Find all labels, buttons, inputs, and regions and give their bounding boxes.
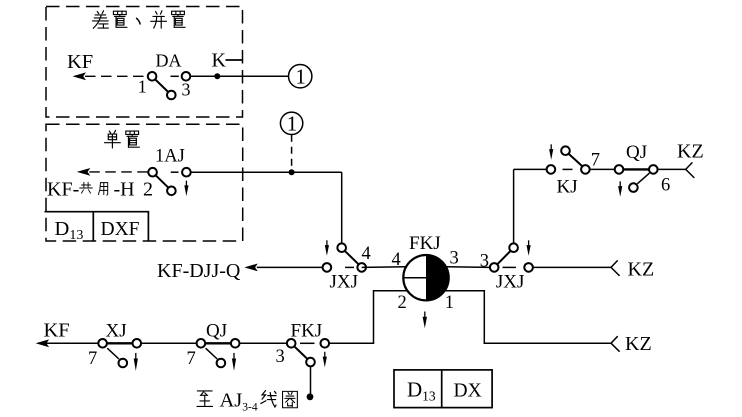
polarized relay FKJ — [403, 255, 448, 300]
wire: stem to AJ coil — [310, 366, 312, 395]
svg-text:1: 1 — [295, 64, 306, 88]
label K- — [212, 49, 243, 71]
FKJ pin labels 4/3/2/1 are near wires; pin 3 label — [450, 248, 459, 268]
svg-text:DXF: DXF — [101, 219, 140, 240]
svg-text:FKJ: FKJ — [409, 233, 441, 254]
pin 3 label — [182, 80, 191, 100]
pin 3 label (FKJ bottom) — [276, 347, 285, 367]
label DA — [156, 50, 182, 70]
svg-text:3: 3 — [276, 347, 285, 367]
pin 4 label (JXJ) — [362, 244, 371, 264]
label XJ — [106, 321, 127, 342]
svg-text:-H: -H — [114, 178, 135, 200]
contact FKJ bottom (open, pin 3) — [287, 339, 329, 366]
wire: dashed drop from node 1 — [291, 135, 293, 169]
svg-text:1AJ: 1AJ — [155, 147, 185, 167]
junction K (solder dot) — [214, 73, 220, 79]
svg-text:KZ: KZ — [625, 333, 652, 355]
wire: solid arrow bottom row — [36, 339, 99, 347]
svg-text:KF-DJJ-Q: KF-DJJ-Q — [157, 260, 241, 282]
arrow under FKJ — [423, 312, 427, 329]
dashed group box: 差置、并置 (top) — [46, 7, 243, 118]
svg-text:DA: DA — [156, 50, 182, 70]
wire: KJ to QJ — [590, 168, 615, 170]
wire: solid arrow row3 — [244, 264, 322, 272]
node 1 (circled, top) — [289, 64, 312, 88]
svg-text:6: 6 — [661, 176, 670, 196]
label QJ — [626, 142, 647, 163]
contact QJ bottom (closed, pin 7) — [197, 339, 240, 367]
wire: dashed arrow row2 — [77, 168, 148, 176]
label JXJ — [330, 271, 359, 292]
wire: QJ to FKJ contact — [240, 342, 287, 344]
wire: dashed arrow to KF — [73, 72, 148, 80]
svg-text:1: 1 — [138, 76, 147, 96]
pin 1 label — [138, 76, 147, 96]
pin 7 label (QJ bottom) — [187, 349, 196, 369]
svg-text:KF: KF — [44, 320, 70, 342]
label JXJ (right) — [496, 271, 525, 292]
svg-text:7: 7 — [187, 349, 196, 369]
svg-text:3: 3 — [450, 248, 459, 268]
arrow on FKJ contact — [323, 352, 327, 368]
svg-text:1: 1 — [445, 293, 454, 313]
contact XJ (closed, pin 7) — [98, 339, 141, 367]
svg-text:QJ: QJ — [206, 321, 227, 342]
label 1AJ — [155, 147, 185, 167]
label QJ (bottom) — [206, 321, 227, 342]
svg-text:FKJ: FKJ — [291, 321, 323, 342]
svg-text:2: 2 — [398, 293, 407, 313]
pin 1 label — [445, 293, 454, 313]
arrow on KJ — [549, 144, 553, 160]
arrow on QJ bottom — [232, 353, 236, 371]
svg-text:K: K — [212, 49, 227, 71]
title 单置 — [105, 130, 140, 148]
arrow on XJ — [134, 353, 138, 371]
svg-text:3: 3 — [182, 80, 191, 100]
svg-text:7: 7 — [591, 151, 600, 171]
svg-text:3: 3 — [480, 251, 489, 271]
label 至 AJ3-4线圈 — [197, 389, 297, 413]
box D13 DX — [394, 370, 492, 408]
dashed group box: 单置 (lower) — [46, 124, 243, 241]
junction under node 1 (solder dot) — [289, 169, 295, 175]
wire: FKJ pin 3 to JXJ right — [446, 266, 490, 269]
pin 7 label — [591, 151, 600, 171]
node 1 (circled, middle) — [280, 111, 302, 135]
pin 3 label (JXJ right) — [480, 251, 489, 271]
pin 2 label — [398, 293, 407, 313]
label FKJ — [409, 233, 441, 254]
terminal KZ (top right) — [677, 140, 704, 178]
svg-text:7: 7 — [88, 349, 97, 369]
contact 1AJ (open, pin 2) — [148, 168, 190, 195]
svg-text:KF-: KF- — [47, 178, 79, 200]
wire: JXJ right to KZ (middle) — [533, 266, 611, 268]
wire: FKJ pin 1 to KZ (bottom) — [445, 291, 611, 344]
pin 7 label (XJ) — [88, 349, 97, 369]
svg-text:JXJ: JXJ — [496, 271, 525, 292]
contact JXJ left (pin 4) — [323, 243, 366, 271]
svg-text:2: 2 — [143, 178, 153, 200]
svg-text:KZ: KZ — [628, 258, 655, 280]
svg-text:4: 4 — [362, 244, 371, 264]
svg-text:DX: DX — [454, 381, 482, 402]
wire: XJ to QJ — [141, 342, 197, 344]
terminal KZ (bottom) — [611, 333, 652, 355]
svg-text:KZ: KZ — [677, 140, 704, 162]
contact KJ (pin 7) — [547, 146, 590, 173]
arrow on JXJ left — [325, 240, 329, 256]
label KF (row1) — [67, 51, 93, 73]
svg-text:KJ: KJ — [557, 176, 578, 197]
label KJ — [557, 176, 578, 197]
wire: QJ to KZ terminal — [658, 168, 686, 170]
arrow on QJ top — [618, 181, 622, 197]
svg-text:JXJ: JXJ — [330, 271, 359, 292]
label KF (bottom row) — [44, 320, 70, 342]
terminal KZ (middle right) — [611, 258, 654, 280]
label FKJ (bottom) — [291, 321, 323, 342]
wire: 1AJ to corner and down to JXJ — [191, 172, 342, 243]
pin 4 label (FKJ) — [392, 250, 401, 270]
terminal dot to AJ3-4 coil — [307, 393, 314, 400]
wire: JXJ right up and over to KJ — [514, 169, 547, 243]
contact QJ top (closed, pin 6) — [615, 165, 658, 192]
contact JXJ right (pin 3) — [490, 243, 533, 271]
pin 6 label — [661, 176, 670, 196]
wire: DA to node 1 — [190, 75, 288, 77]
box D13 DXF — [45, 212, 149, 243]
wire: JXJ to FKJ pin 4 — [362, 266, 406, 269]
arrow on 1AJ — [184, 181, 188, 197]
svg-text:QJ: QJ — [626, 142, 647, 163]
svg-text:1: 1 — [287, 111, 298, 135]
contact DA (open, pins 1-3) — [148, 72, 191, 99]
title 差置、并置 — [93, 11, 186, 28]
label KF-DJJ-Q — [157, 260, 241, 282]
svg-text:4: 4 — [392, 250, 401, 270]
wire: FKJ pin 2 down to bottom row — [329, 291, 407, 344]
svg-text:XJ: XJ — [106, 321, 127, 342]
label KF-共用-H 2 — [47, 178, 153, 200]
arrow on JXJ right — [527, 240, 531, 256]
svg-text:KF: KF — [67, 51, 93, 73]
